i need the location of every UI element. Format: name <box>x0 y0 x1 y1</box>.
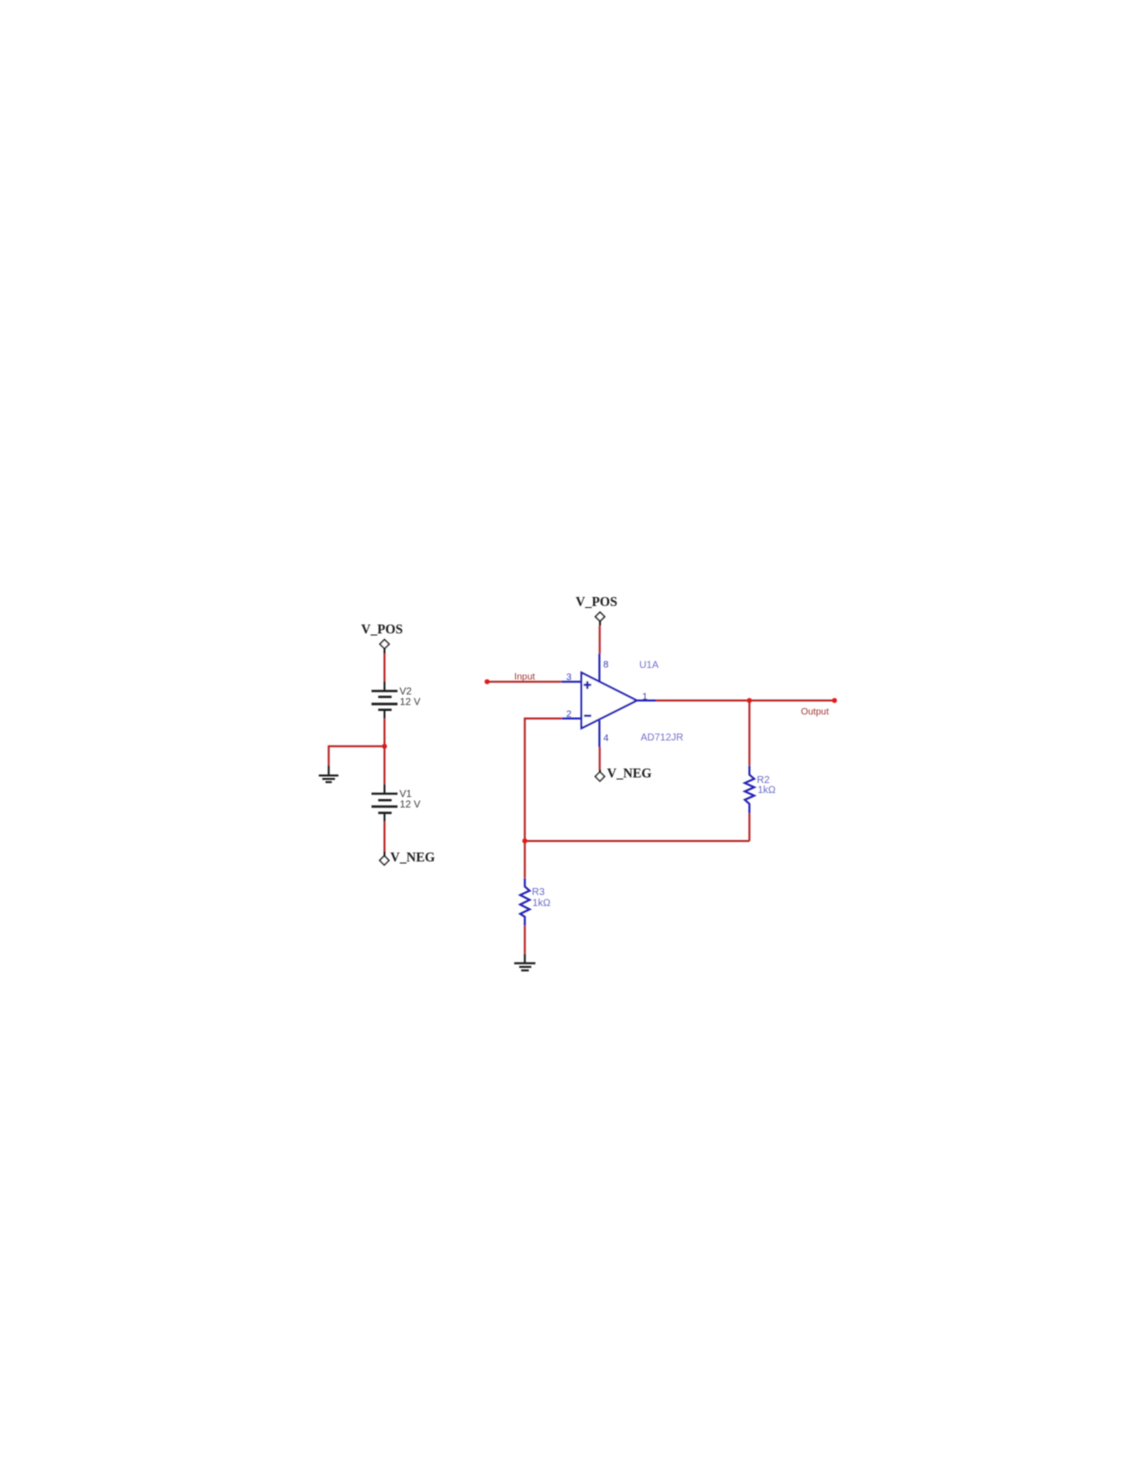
wire pin 2 to feedback node <box>525 719 582 841</box>
battery V2 <box>372 691 398 719</box>
svg-text:12 V: 12 V <box>400 697 421 708</box>
refdes label U1A <box>639 660 659 671</box>
connector diamond V_NEG (supply stack) <box>380 856 389 865</box>
pin number 8 <box>603 660 608 671</box>
pin number 3 <box>566 672 571 683</box>
wire battery V2 to junction <box>384 719 386 747</box>
svg-text:8: 8 <box>603 660 608 671</box>
net label Output <box>801 707 829 717</box>
value label V2 <box>400 687 413 698</box>
op-amp minus input marker <box>584 715 591 717</box>
connector diamond V_POS (op-amp) <box>595 612 604 621</box>
wire output junction to R2 <box>748 701 750 766</box>
svg-text:U1A: U1A <box>639 660 659 671</box>
pin number 1 <box>642 691 647 702</box>
wire Input to pin 3 <box>487 681 561 683</box>
ground (R3) <box>514 963 535 970</box>
value label 1kΩ (R2) <box>758 785 777 796</box>
wire op-amp pin 4 to V_NEG <box>598 720 601 772</box>
refdes label R3 <box>532 887 545 898</box>
wire R3 to ground <box>524 926 526 964</box>
svg-text:AD712JR: AD712JR <box>641 733 684 744</box>
svg-text:1: 1 <box>642 691 647 702</box>
pin number 4 <box>603 733 608 744</box>
part number label AD712JR <box>641 733 684 744</box>
node Output dot <box>832 698 837 703</box>
wire battery V1 to V_NEG diamond <box>384 822 386 856</box>
node V_NEG label (supply stack) <box>390 849 435 864</box>
node Input dot <box>485 679 490 684</box>
svg-text:4: 4 <box>603 733 608 744</box>
resistor R2 <box>745 766 754 814</box>
wire op-amp output pin 1 <box>637 700 834 702</box>
wire feedback junction to R3 <box>524 841 526 878</box>
junction dot output/R2 <box>747 698 752 703</box>
wire junction to ground (left) <box>329 746 385 775</box>
value label 12 V (V1) <box>400 800 421 811</box>
node V_POS label (op-amp) <box>576 594 618 609</box>
connector diamond V_POS (supply stack) <box>380 640 389 649</box>
svg-text:R2: R2 <box>757 775 770 786</box>
wire V_POS diamond to battery V2 <box>384 649 386 691</box>
op-amp U1 triangle <box>581 673 636 729</box>
svg-text:R3: R3 <box>532 887 545 898</box>
connector diamond V_NEG (op-amp) <box>595 772 604 781</box>
refdes label R2 <box>757 775 770 786</box>
wire junction to battery V1 <box>384 746 386 793</box>
svg-text:1kΩ: 1kΩ <box>532 898 551 909</box>
junction dot feedback/R3 <box>522 838 527 843</box>
svg-text:V_POS: V_POS <box>361 621 403 636</box>
svg-text:V_POS: V_POS <box>576 594 618 609</box>
svg-text:3: 3 <box>566 672 571 683</box>
battery V1 <box>372 794 398 822</box>
svg-text:V_NEG: V_NEG <box>390 849 435 864</box>
op-amp plus input marker <box>584 681 592 689</box>
value label 12 V (V2) <box>400 697 421 708</box>
node V_NEG label (op-amp) <box>607 766 652 781</box>
pin 3 stub <box>561 681 581 683</box>
resistor R3 <box>520 878 529 926</box>
svg-text:12 V: 12 V <box>400 800 421 811</box>
net label Input <box>514 672 535 682</box>
svg-text:V_NEG: V_NEG <box>607 766 652 781</box>
wire V_POS to op-amp pin 8 <box>598 621 601 681</box>
svg-text:Output: Output <box>801 707 829 717</box>
node V_POS label (supply stack) <box>361 621 403 636</box>
pin number 2 <box>566 709 571 720</box>
wire R2 to feedback <box>748 813 750 841</box>
junction dot supply midpoint <box>382 744 387 749</box>
value label V1 <box>400 789 413 800</box>
ground (supply) <box>319 776 339 783</box>
value label 1kΩ (R3) <box>532 898 551 909</box>
svg-text:1kΩ: 1kΩ <box>758 785 777 796</box>
svg-text:Input: Input <box>514 672 535 682</box>
svg-text:2: 2 <box>566 709 571 720</box>
wire feedback horizontal <box>525 840 750 842</box>
